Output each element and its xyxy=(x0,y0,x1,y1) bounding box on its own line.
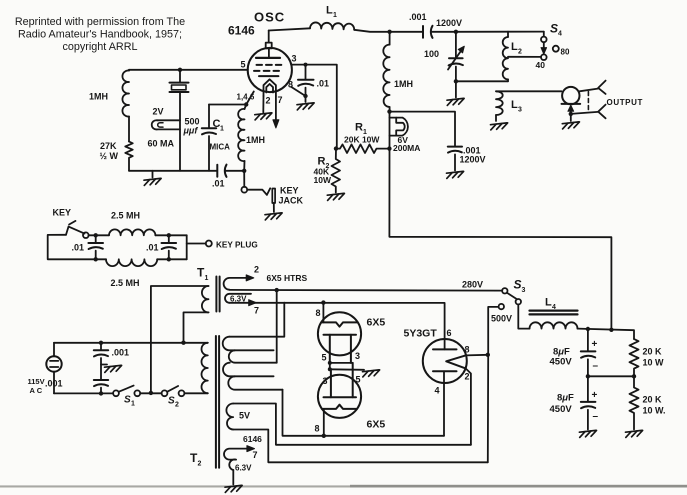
switch S1 xyxy=(113,386,140,397)
svg-text:1: 1 xyxy=(220,126,224,133)
svg-text:A C: A C xyxy=(30,386,43,395)
output connector base xyxy=(562,104,581,121)
node grid bottom xyxy=(242,169,246,173)
tube V1 6146 envelope xyxy=(248,48,292,92)
svg-text:MICA: MICA xyxy=(210,143,231,152)
wire 280V to S3 upper contact xyxy=(502,288,507,293)
label T2 xyxy=(190,451,202,468)
svg-text:4: 4 xyxy=(552,304,556,311)
capacitor .001 line lower xyxy=(94,380,108,393)
header copyright text xyxy=(15,16,185,53)
node crystal top xyxy=(178,68,182,72)
svg-text:7: 7 xyxy=(254,306,259,316)
node 6X5a pin8 tap xyxy=(321,300,325,304)
keying loop left xyxy=(48,235,96,259)
node T1 primary drop xyxy=(149,391,153,395)
wire AC top line xyxy=(54,342,208,344)
label S4 xyxy=(550,22,562,38)
node HV CT riser top xyxy=(275,288,279,292)
node tank bottom xyxy=(454,79,458,83)
transformer T1 heater winding loop 1 xyxy=(224,275,254,290)
variable capacitor 100 xyxy=(448,32,464,82)
svg-text:+: + xyxy=(592,390,598,401)
wire output top to terminal xyxy=(580,89,598,92)
ground R2 xyxy=(327,193,344,200)
inductor L3 xyxy=(496,91,562,121)
svg-text:6X5 HTRS: 6X5 HTRS xyxy=(267,273,308,283)
tube 6X5 upper envelope xyxy=(318,312,361,355)
capacitor .001 1200V coupling xyxy=(423,26,456,38)
ground lower cap xyxy=(579,430,596,437)
svg-text:2: 2 xyxy=(198,461,202,468)
svg-text:200MA: 200MA xyxy=(393,143,420,153)
contact 80 xyxy=(553,46,559,52)
wire C1 top to node 146 xyxy=(209,104,246,106)
tube 6X5a pin 8 lead xyxy=(322,303,324,323)
ground L3 xyxy=(491,123,508,130)
inductor L1 xyxy=(310,22,354,29)
svg-text:5: 5 xyxy=(322,353,327,363)
svg-text:6: 6 xyxy=(447,328,452,338)
wire output bottom to terminal xyxy=(571,112,598,114)
svg-text:20K 10W: 20K 10W xyxy=(344,135,380,145)
svg-text:L: L xyxy=(511,99,518,111)
wire top cap to L1 xyxy=(269,28,310,30)
svg-text:8: 8 xyxy=(316,308,321,318)
label L4 xyxy=(545,297,556,312)
svg-text:8: 8 xyxy=(465,345,470,355)
svg-text:.01: .01 xyxy=(212,179,225,189)
node T1 primary return xyxy=(181,341,185,345)
wire pin 5 lead xyxy=(129,69,248,71)
resistor 20K 10W upper xyxy=(630,339,639,376)
wire L2 tap to 40 contact xyxy=(508,56,541,58)
transformer T2 primary xyxy=(201,343,207,393)
key jack symbol xyxy=(247,188,275,212)
heater pin 7 arrow xyxy=(273,96,279,128)
svg-text:R: R xyxy=(355,122,363,134)
svg-text:6146: 6146 xyxy=(228,24,255,38)
ground key jack xyxy=(265,213,282,220)
svg-text:.01: .01 xyxy=(317,79,330,89)
ground left rail xyxy=(144,171,161,186)
AC plug xyxy=(46,343,61,394)
lamp 2V 60MA xyxy=(152,120,180,129)
tube V1 grid row 1 xyxy=(257,64,282,66)
label C1 xyxy=(213,118,225,133)
output terminal chevron top xyxy=(598,81,605,94)
tube V1 beam plate xyxy=(259,75,278,77)
svg-text:–: – xyxy=(593,411,599,422)
node bypass bottom xyxy=(303,94,307,98)
svg-text:40: 40 xyxy=(536,60,546,70)
svg-text:2V: 2V xyxy=(153,107,164,117)
tube 6X5b pin 8 lead xyxy=(323,409,325,436)
svg-text:2.5 MH: 2.5 MH xyxy=(111,211,140,221)
svg-text:3: 3 xyxy=(518,107,522,114)
svg-text:JACK: JACK xyxy=(279,196,304,206)
svg-text:KEY PLUG: KEY PLUG xyxy=(216,241,258,250)
switch S2 xyxy=(162,386,185,396)
ground tank xyxy=(447,98,464,105)
transformer T2 6146 heater winding xyxy=(224,446,254,485)
wire cathode leg 2 to ground xyxy=(262,96,264,113)
wire pin 3 lead xyxy=(292,65,337,149)
svg-text:μμf: μμf xyxy=(183,126,199,136)
svg-text:S: S xyxy=(514,278,522,292)
svg-text:1: 1 xyxy=(131,401,135,408)
wire tank top to S4 xyxy=(456,31,544,33)
svg-text:3: 3 xyxy=(522,287,526,294)
wire L1 to coupling cap xyxy=(354,30,423,32)
tube V1 grid row 2 xyxy=(254,70,279,72)
wire 5Y3 pin 2 xyxy=(466,368,471,444)
key jack tip circle xyxy=(241,187,247,193)
node output ground tap xyxy=(569,112,573,116)
svg-text:L: L xyxy=(511,41,518,53)
svg-text:.01: .01 xyxy=(72,243,85,253)
tube 5Y3 filament xyxy=(446,355,465,368)
wire screen node to bypass 2 xyxy=(390,112,456,146)
wire 280V rail xyxy=(230,289,503,292)
node screen top xyxy=(387,109,391,113)
heater 6146 6V 200MA xyxy=(390,118,408,136)
node plate bar a xyxy=(328,361,332,365)
tube V1 plate xyxy=(256,48,280,58)
key switch blade xyxy=(66,221,85,235)
transformer T2 core xyxy=(216,336,219,468)
svg-text:6146: 6146 xyxy=(243,434,262,444)
svg-text:80: 80 xyxy=(561,48,570,57)
wire bypass to ground xyxy=(305,96,307,102)
capacitor .01 key left xyxy=(88,235,103,259)
svg-text:Reprinted with permission from: Reprinted with permission from The xyxy=(15,16,185,28)
svg-text:1MH: 1MH xyxy=(89,92,108,102)
svg-text:100: 100 xyxy=(424,49,439,59)
output terminal chevron bottom xyxy=(598,105,605,119)
wire plate bar lower xyxy=(330,368,364,371)
ground under cathode leg xyxy=(255,113,272,120)
wire tank bottom to ground xyxy=(455,81,457,97)
inductor L2 xyxy=(503,32,508,82)
svg-text:2: 2 xyxy=(254,265,259,275)
transformer T1 primary xyxy=(151,286,209,393)
svg-text:5Y3GT: 5Y3GT xyxy=(404,328,438,340)
node AC cap top xyxy=(99,341,103,345)
output connector circle xyxy=(562,87,579,104)
resistor 20K 10W lower xyxy=(630,376,639,429)
wire AC bottom line xyxy=(54,392,113,394)
svg-text:7: 7 xyxy=(253,450,258,460)
choke L4 xyxy=(530,311,578,329)
svg-text:20 K: 20 K xyxy=(643,395,663,405)
resistor R1 20K 10W xyxy=(336,144,389,153)
svg-text:S: S xyxy=(168,396,175,407)
svg-text:+: + xyxy=(592,339,598,350)
svg-text:8: 8 xyxy=(315,424,320,434)
wire bottom rail left section xyxy=(129,170,217,172)
svg-text:KEY: KEY xyxy=(280,186,299,196)
wire plate bar jog xyxy=(329,363,331,369)
node key cap2 top xyxy=(167,233,171,237)
switch S3 lever xyxy=(507,293,517,300)
ground lower resistor xyxy=(626,430,643,437)
choke 1MH tank xyxy=(383,32,389,112)
node mid rail left xyxy=(586,374,590,378)
svg-text:1: 1 xyxy=(333,12,337,19)
svg-text:3: 3 xyxy=(292,54,297,64)
label R2 xyxy=(318,156,330,171)
wire screen node down B+ xyxy=(389,112,611,331)
transformer T2 5V winding xyxy=(226,404,487,463)
wire 5Y3 pin 4 xyxy=(443,371,445,436)
wire 5Y3 pin 8 xyxy=(466,354,488,357)
svg-text:S: S xyxy=(124,395,131,406)
svg-text:2.5 MH: 2.5 MH xyxy=(111,278,140,288)
label L3 xyxy=(511,99,522,114)
wire L4 output xyxy=(578,329,635,339)
resistor R2 40K 10W xyxy=(332,149,341,193)
choke 1MH left xyxy=(122,70,129,142)
tube 5Y3 plate top xyxy=(433,348,457,350)
svg-text:60 MA: 60 MA xyxy=(148,139,175,149)
svg-text:8μF: 8μF xyxy=(557,393,574,404)
svg-text:2: 2 xyxy=(175,402,179,409)
capacitor 8uF 450V upper xyxy=(581,329,596,376)
tube 6X5b cathode xyxy=(324,363,357,397)
capacitor .01 plate bypass xyxy=(298,65,314,96)
wire heater rail to 5Y3 plate xyxy=(230,303,445,350)
wire branch down to HV top xyxy=(230,303,285,337)
tube 6X5 lower envelope xyxy=(318,375,361,418)
node pin3 bypass top xyxy=(304,63,308,67)
tube V1 cathode outer xyxy=(264,79,276,96)
svg-text:2: 2 xyxy=(465,372,470,382)
transformer T1 core xyxy=(216,277,219,312)
svg-text:.01: .01 xyxy=(146,243,159,253)
svg-text:OUTPUT: OUTPUT xyxy=(607,98,644,107)
key switch contact xyxy=(83,232,89,238)
tube 5Y3 plate bottom xyxy=(433,370,457,372)
capacitor C1 500uuf mica xyxy=(202,105,216,171)
node key cap1 top xyxy=(94,233,98,237)
svg-text:.001: .001 xyxy=(409,12,427,22)
label L2 xyxy=(511,41,522,56)
switch S4 upper contact xyxy=(541,32,547,43)
svg-text:5: 5 xyxy=(241,60,246,70)
svg-text:7: 7 xyxy=(278,95,283,105)
wire S1 to S2 xyxy=(140,392,161,394)
ground 6X5 center xyxy=(363,370,380,377)
node key cap1 bottom xyxy=(94,257,98,261)
ground T2 heater xyxy=(225,485,242,492)
resistor 27K 1/2W xyxy=(125,142,132,171)
ground screen cap xyxy=(447,171,464,178)
node filter cap 1 xyxy=(586,327,590,331)
wire tank bottom to L2 xyxy=(456,80,508,82)
ground bypass xyxy=(297,103,314,110)
svg-text:1200V: 1200V xyxy=(436,18,462,28)
svg-text:6X5: 6X5 xyxy=(367,317,386,329)
svg-text:1MH: 1MH xyxy=(394,79,413,89)
wire key loop right xyxy=(186,235,188,259)
node B+ riser xyxy=(609,328,613,332)
node 5Y3 pin8 500V xyxy=(486,353,490,357)
capacitor .01 key right xyxy=(162,235,177,259)
node AC cap bottom xyxy=(99,391,103,395)
choke 1MH grid xyxy=(238,105,246,171)
svg-text:450V: 450V xyxy=(550,357,573,368)
contact 500V xyxy=(499,304,504,309)
switch S4 arrow xyxy=(541,43,547,54)
svg-text:1MH: 1MH xyxy=(246,135,265,145)
dashed link output xyxy=(587,92,589,113)
svg-text:–: – xyxy=(593,361,599,372)
wire pin 8 to bypass bottom xyxy=(291,87,306,96)
wire 500V contact down xyxy=(488,307,499,462)
wire pins 1,4,6 to node xyxy=(246,92,254,105)
svg-text:1200V: 1200V xyxy=(460,155,486,165)
svg-text:KEY: KEY xyxy=(53,208,72,218)
node R1 left / pin3 xyxy=(334,146,338,150)
svg-text:27K: 27K xyxy=(100,141,117,151)
svg-text:10W: 10W xyxy=(314,175,332,185)
node 1,4,6 junction xyxy=(244,102,248,106)
wire mid rail xyxy=(588,375,634,377)
svg-text:2: 2 xyxy=(518,49,522,56)
capacitor .001 1200V screen xyxy=(448,147,462,171)
transformer T2 HV winding xyxy=(223,337,283,390)
choke 2.5MH top xyxy=(89,229,187,235)
node R1 right xyxy=(387,146,391,150)
svg-text:S: S xyxy=(550,22,558,36)
svg-text:10 W.: 10 W. xyxy=(643,406,666,416)
bottom scan artifact band xyxy=(0,485,687,488)
label R1 xyxy=(355,122,367,137)
node mid rail right xyxy=(632,374,636,378)
svg-text:4: 4 xyxy=(558,31,562,38)
wire S3 pole to L4 xyxy=(518,304,529,328)
label S1 xyxy=(124,395,135,408)
crystal Y1 xyxy=(170,70,189,171)
svg-text:4: 4 xyxy=(435,386,440,396)
wire key plug stub xyxy=(187,243,206,245)
svg-text:20 K: 20 K xyxy=(643,347,663,357)
wire plate bar upper xyxy=(330,362,353,364)
node plate bar b xyxy=(328,367,332,371)
wire S2 to T2 primary xyxy=(184,392,207,394)
svg-text:Radio Amateur's Handbook, 1957: Radio Amateur's Handbook, 1957; xyxy=(18,29,182,41)
tube 6X5b plate xyxy=(322,405,357,409)
svg-text:2: 2 xyxy=(266,96,271,106)
switch S3 pole xyxy=(516,299,521,304)
svg-text:copyright ARRL: copyright ARRL xyxy=(62,41,137,53)
choke 2.5MH bottom xyxy=(96,259,187,266)
svg-text:280V: 280V xyxy=(462,280,483,290)
wire HV bottom drop xyxy=(283,390,445,436)
svg-text:6.3V: 6.3V xyxy=(235,464,252,473)
svg-text:1: 1 xyxy=(205,275,209,282)
switch S4 lower contact 40 xyxy=(541,54,547,60)
svg-text:10 W: 10 W xyxy=(643,358,665,368)
capacitor 8uF 450V lower xyxy=(581,376,596,429)
node tank top xyxy=(387,30,391,34)
tube V1 heater inner xyxy=(266,84,273,93)
key plug circle xyxy=(206,241,212,247)
capacitor .001 line upper xyxy=(94,343,108,380)
label S3 xyxy=(514,278,526,295)
ground output xyxy=(562,122,579,129)
svg-text:115V: 115V xyxy=(28,377,45,386)
svg-text:L: L xyxy=(326,5,333,17)
tube 6X5a cathode xyxy=(324,335,357,363)
svg-text:½ W: ½ W xyxy=(100,151,119,161)
svg-text:500V: 500V xyxy=(491,314,512,324)
label S2 xyxy=(168,396,179,409)
svg-text:5V: 5V xyxy=(239,411,250,421)
svg-text:450V: 450V xyxy=(550,404,573,415)
label L1 xyxy=(326,5,337,20)
ground AC caps xyxy=(101,365,122,373)
svg-text:.001: .001 xyxy=(112,348,130,358)
tube 6X5a plate xyxy=(322,322,357,326)
svg-text:.001: .001 xyxy=(45,379,63,389)
node variable cap top xyxy=(454,30,458,34)
svg-text:3: 3 xyxy=(355,351,360,361)
label T1 xyxy=(197,266,209,283)
svg-text:OSC: OSC xyxy=(254,10,285,25)
wire to key jack tip xyxy=(243,171,245,187)
node 6X5b pin8 on rail xyxy=(322,434,326,438)
tube 5Y3GT envelope xyxy=(423,339,467,383)
capacitor .01 series (grid) xyxy=(217,165,244,177)
svg-text:L: L xyxy=(545,297,552,309)
node key cap2 bottom xyxy=(167,257,171,261)
wire HV CT riser xyxy=(276,290,278,363)
svg-text:6X5: 6X5 xyxy=(367,419,386,431)
transformer T1 heater winding loop 2 xyxy=(225,294,256,306)
tube V1 top cap xyxy=(266,31,272,49)
